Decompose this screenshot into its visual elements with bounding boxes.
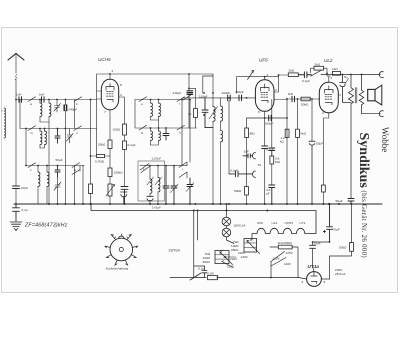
wire column x264.7 — [264, 118, 266, 204]
voltage selector block B — [215, 251, 236, 268]
oscillator node column x195.5 — [194, 88, 198, 128]
dial cord lines — [194, 211, 198, 278]
capacitor x264.7 — [262, 146, 268, 149]
wire anode top UCH5 — [97, 74, 213, 155]
svg-text:220V: 220V — [227, 265, 235, 269]
tube UL2 envelope — [319, 82, 338, 112]
svg-text:4: 4 — [120, 93, 122, 97]
grid wire UF6 — [183, 97, 255, 99]
svg-text:1nF: 1nF — [244, 150, 249, 154]
switch c3 — [72, 170, 80, 175]
svg-text:440pF: 440pF — [235, 90, 244, 94]
svg-text:1k: 1k — [188, 112, 192, 116]
svg-text:0,1μF: 0,1μF — [128, 143, 136, 147]
capacitor 50pF row3 — [55, 166, 60, 178]
svg-text:50kΩ: 50kΩ — [301, 103, 309, 107]
IF1 row2 coil A — [151, 128, 153, 145]
svg-text:n: n — [76, 131, 78, 135]
svg-text:500Ω: 500Ω — [339, 246, 347, 250]
wire top x236.7 down — [236, 77, 238, 93]
capacitor row2 x166 — [163, 128, 169, 140]
wire column x246.5 — [246, 156, 248, 187]
IF1 row2 coil B — [151, 128, 161, 145]
svg-text:a: a — [30, 102, 32, 106]
wire column x287 down — [286, 99, 288, 204]
svg-text:UCH5: UCH5 — [98, 57, 111, 62]
svg-text:UY1a: UY1a — [308, 264, 320, 269]
svg-text:Wobbe: Wobbe — [380, 127, 390, 152]
svg-text:1kΩ: 1kΩ — [332, 67, 338, 71]
resistor 1M — [245, 118, 249, 156]
tube UL2 pins — [319, 95, 341, 204]
svg-text:4: 4 — [322, 111, 324, 115]
svg-text:0,1μ: 0,1μ — [198, 267, 204, 271]
svg-text:18V0,1A: 18V0,1A — [234, 224, 247, 228]
svg-text:150kΩ: 150kΩ — [114, 171, 124, 175]
mains selector switch — [271, 252, 286, 278]
capacitor 0.1uF x271.8 — [269, 148, 275, 156]
svg-text:100μF: 100μF — [265, 122, 274, 126]
capacitor 50uF — [348, 199, 354, 205]
svg-text:8nF: 8nF — [288, 92, 293, 96]
capacitor 5uF electrolytic — [340, 75, 352, 103]
grid wire UL2 — [287, 98, 320, 100]
capacitor electrolytic x123.8 — [121, 192, 128, 204]
svg-text:0,1μF: 0,1μF — [230, 169, 238, 173]
coil L1 — [40, 100, 49, 123]
svg-text:0,1μF: 0,1μF — [302, 79, 310, 83]
switch d4 — [177, 125, 185, 130]
wire column x271.8 — [271, 100, 273, 149]
wire column x190 row to bus — [189, 100, 191, 163]
switch a1 — [28, 97, 36, 102]
junction dots ground bus — [15, 73, 362, 279]
svg-text:ZF=468(473)kHz: ZF=468(473)kHz — [24, 223, 68, 229]
resistor 50k x246.5 — [245, 187, 249, 205]
capacitor 0.1uF series top — [298, 72, 311, 78]
speaker cone — [375, 85, 382, 105]
resistor 1.2k x287 — [285, 129, 289, 137]
coil L4 — [40, 129, 46, 149]
svg-text:UL2: UL2 — [272, 221, 278, 225]
svg-text:f: f — [179, 102, 180, 106]
svg-text:26,5mA: 26,5mA — [335, 272, 347, 276]
svg-text:110V: 110V — [284, 262, 292, 266]
heater chain — [250, 228, 312, 240]
coil L6 — [47, 166, 49, 205]
tube UCH5 pins — [97, 74, 125, 140]
svg-text:50kΩ: 50kΩ — [98, 143, 106, 147]
svg-text:μF: μF — [266, 192, 270, 196]
svg-text:8: 8 — [324, 280, 326, 284]
svg-text:10nF: 10nF — [314, 241, 321, 245]
wire row2 bus — [20, 100, 97, 129]
tube UCH5 envelope — [101, 79, 118, 109]
anode supply wire top — [237, 76, 279, 78]
svg-text:210μF: 210μF — [173, 91, 182, 95]
coil L2 — [49, 100, 51, 205]
IF2 coil A — [147, 166, 154, 197]
resistor 110+500 ohm — [270, 245, 298, 277]
resistor 150k — [108, 155, 112, 184]
speaker magnet — [368, 89, 375, 100]
trimmer row3 — [54, 177, 61, 204]
svg-text:m: m — [30, 131, 33, 135]
capacitor 1nF series — [19, 97, 22, 103]
resistor R-agc column x90.5 — [89, 100, 93, 205]
capacitor 8nF series — [292, 96, 295, 102]
switch d3 — [177, 97, 185, 102]
svg-text:MΩ: MΩ — [275, 160, 281, 164]
wire column x66 — [64, 111, 66, 205]
capacitor row2 — [55, 129, 60, 144]
capacitor 70uF electrolytic — [324, 204, 333, 242]
switch c1 — [28, 163, 36, 168]
svg-text:240μF: 240μF — [68, 108, 77, 112]
svg-text:1nF: 1nF — [16, 93, 21, 97]
capacitor 1nF horizontal — [243, 154, 253, 158]
svg-text:2: 2 — [112, 69, 114, 73]
svg-text:140V: 140V — [241, 255, 249, 259]
ground bus — [14, 203, 382, 205]
speaker connector bottom — [379, 111, 383, 117]
resistor 500 ohm vertical — [350, 204, 354, 251]
SECTION-TEXT — [1, 57, 390, 284]
svg-text:23/7cm: 23/7cm — [169, 249, 181, 253]
svg-text:70μF: 70μF — [333, 228, 340, 232]
resistor 0.8M x271.8 — [270, 156, 274, 185]
connector TA lower — [253, 171, 256, 177]
potentiometer volume — [106, 184, 115, 204]
scale lamp 1 — [222, 204, 231, 226]
svg-text:5kΩ: 5kΩ — [300, 132, 306, 136]
switch b1 — [28, 126, 36, 131]
svg-text:50μF: 50μF — [336, 199, 343, 203]
trimmer IF2 x174 — [171, 166, 179, 204]
svg-text:50kΩ: 50kΩ — [234, 189, 242, 193]
speaker bottom wire — [362, 113, 381, 115]
capacitor 440pF series — [239, 95, 242, 101]
voltage selector block A — [244, 239, 260, 254]
wire column x182 — [181, 100, 183, 166]
resistor 1k right of UL2 top — [332, 71, 340, 75]
capacitor 4.5uF x271.8 — [269, 185, 275, 204]
scale lamp 2 — [222, 226, 234, 244]
tube UF6 envelope — [255, 80, 274, 112]
svg-text:53μF: 53μF — [316, 142, 323, 146]
wire row2 right segment — [135, 100, 197, 129]
trimmer row2 — [67, 129, 74, 144]
connector TA upper — [253, 153, 256, 159]
svg-text:1,67μF: 1,67μF — [152, 157, 162, 161]
resistor 5k x297.5 — [296, 99, 300, 204]
resistor 50k horizontal — [301, 97, 310, 101]
svg-text:≈: ≈ — [1, 109, 3, 113]
wire column x26 — [25, 129, 27, 166]
trimmer on top wire — [248, 71, 254, 80]
tube UF6 pins — [255, 75, 288, 118]
svg-text:0,1μF: 0,1μF — [266, 148, 274, 152]
wire column x74.5 — [75, 100, 81, 205]
switch b2 — [74, 126, 82, 131]
svg-text:UF6: UF6 — [259, 58, 268, 63]
capacitor col x124.5 — [121, 187, 128, 205]
resistor 160 ohm — [123, 124, 127, 141]
heater line H5 — [91, 204, 316, 234]
fuse 0.5A — [208, 276, 299, 280]
svg-text:2kΩ: 2kΩ — [315, 62, 321, 66]
resistor 50k col x110 — [108, 140, 112, 155]
resistor col x124.5 — [123, 141, 127, 187]
svg-text:UY1: UY1 — [300, 221, 306, 225]
switch d2 — [139, 125, 147, 130]
wire row1 right segment — [135, 99, 190, 101]
mains switch — [190, 273, 201, 280]
coil L3 — [40, 129, 42, 149]
transformer core — [355, 88, 356, 104]
wire row1 bus — [16, 99, 97, 101]
switch a2 — [74, 97, 82, 102]
svg-text:b: b — [76, 102, 78, 106]
switch d1 — [139, 97, 147, 102]
switch f1 — [183, 95, 191, 100]
switch e2 — [179, 162, 187, 168]
IF2 frame — [138, 161, 165, 201]
svg-text:0,7MΩ: 0,7MΩ — [95, 160, 105, 164]
resistor 0.7M horizontal — [91, 154, 111, 157]
capacitor electrolytic IF2 — [147, 196, 154, 204]
svg-text:95kΩ: 95kΩ — [203, 260, 211, 264]
svg-text:0,1μ: 0,1μ — [22, 208, 28, 212]
trimmer capacitor — [54, 100, 61, 113]
tube UCH5 electrodes — [106, 84, 114, 102]
output transformer secondary — [359, 75, 364, 114]
ground — [10, 222, 22, 231]
svg-text:kΩ: kΩ — [280, 140, 285, 144]
wire column x83 — [83, 166, 84, 205]
IF2 coil B — [155, 166, 162, 204]
switch e3 — [179, 172, 187, 178]
wire B+ top right — [279, 74, 289, 76]
resistor 2k upper — [311, 66, 327, 74]
svg-text:125V: 125V — [286, 251, 294, 255]
svg-text:1+5μF: 1+5μF — [152, 206, 161, 210]
svg-text:UCH5: UCH5 — [285, 221, 294, 225]
wire row3 bus — [26, 165, 84, 167]
speaker top wire — [362, 74, 381, 76]
capacitor 240uF block — [64, 105, 66, 111]
svg-text:50μF: 50μF — [56, 158, 63, 162]
capacitor 0.1u to ground — [13, 204, 20, 221]
svg-text:67pF: 67pF — [21, 186, 28, 190]
svg-text:110pF: 110pF — [199, 95, 208, 99]
resistor 2k horizontal — [288, 73, 298, 77]
svg-text:6: 6 — [258, 110, 260, 114]
capacitor 100uF series — [269, 115, 272, 121]
switch e1 — [140, 164, 150, 173]
svg-text:5μ: 5μ — [344, 75, 348, 79]
IF1 coil A — [151, 100, 159, 121]
tube socket diagram — [105, 234, 138, 265]
svg-text:2kΩ: 2kΩ — [289, 69, 295, 73]
wire osc top — [189, 74, 196, 128]
svg-text:h: h — [179, 131, 181, 135]
trimmer x190 — [186, 178, 194, 204]
svg-text:0,5A: 0,5A — [208, 272, 215, 276]
speaker connector top — [379, 72, 383, 78]
capacitor 5nF series — [42, 97, 45, 103]
svg-text:100pF: 100pF — [222, 91, 231, 95]
svg-text:UL2: UL2 — [324, 58, 333, 63]
svg-text:1MΩ: 1MΩ — [248, 132, 255, 136]
switch c2 — [72, 163, 80, 168]
rectifier UY1a — [299, 272, 330, 287]
switch g1 — [311, 70, 322, 76]
IF1 coil B — [159, 100, 161, 129]
tube UF6 electrodes — [261, 84, 270, 103]
antenna — [8, 54, 24, 186]
wire IF2 top — [140, 165, 187, 167]
wire UF6 cathode — [247, 117, 287, 119]
wire heater right end — [312, 233, 316, 235]
svg-text:220V: 220V — [230, 257, 238, 261]
svg-text:7: 7 — [104, 110, 106, 114]
page border frame — [2, 28, 398, 293]
svg-text:220V: 220V — [273, 257, 281, 261]
frame antenna coil left edge — [4, 108, 6, 138]
capacitor mains 0.1u — [194, 266, 207, 278]
svg-text:g: g — [141, 131, 143, 135]
capacitor 67pF on antenna lead — [13, 186, 20, 204]
svg-text:(bis Gerät Nr. 26 000): (bis Gerät Nr. 26 000) — [360, 191, 367, 259]
capacitor 100pF series — [228, 95, 231, 101]
tube UL2 electrodes — [325, 86, 334, 105]
oscillator coil 3 — [221, 131, 223, 205]
svg-text:Sockelschaltung: Sockelschaltung — [106, 267, 129, 271]
oscillator coil 2 — [221, 98, 223, 131]
svg-text:8: 8 — [120, 83, 122, 87]
wire rectifier anode — [313, 242, 330, 272]
capacitor 10nF — [310, 245, 316, 248]
wire column x229 — [228, 101, 230, 174]
svg-text:d: d — [74, 168, 76, 172]
svg-text:160Ω: 160Ω — [113, 128, 121, 132]
svg-text:2: 2 — [331, 76, 333, 80]
wire to UL2 top — [321, 75, 331, 83]
svg-text:2: 2 — [302, 280, 304, 284]
svg-text:2: 2 — [267, 73, 269, 77]
capacitor 0.1uF horizontal — [229, 171, 252, 177]
capacitor 110pF osc — [202, 98, 213, 128]
coil L5 — [38, 166, 40, 205]
svg-text:e: e — [141, 102, 143, 106]
svg-text:UF6: UF6 — [257, 221, 263, 225]
capacitor 210pF block — [187, 91, 193, 95]
svg-text:3: 3 — [275, 88, 277, 92]
wire column x202.8 — [203, 76, 213, 93]
wire UY1a cathode to 500ohm — [330, 251, 352, 279]
svg-text:Syndikus: Syndikus — [356, 133, 371, 189]
capacitor IF2 x166 — [163, 166, 169, 204]
capacitor 53uF x312 — [309, 99, 315, 204]
svg-text:110+500Ω: 110+500Ω — [278, 241, 293, 245]
wire B+ to output — [321, 74, 362, 76]
svg-text:5nF: 5nF — [39, 93, 44, 97]
oscillator coil with arrow — [209, 74, 218, 204]
output transformer primary — [349, 75, 354, 199]
mains line — [170, 277, 206, 279]
